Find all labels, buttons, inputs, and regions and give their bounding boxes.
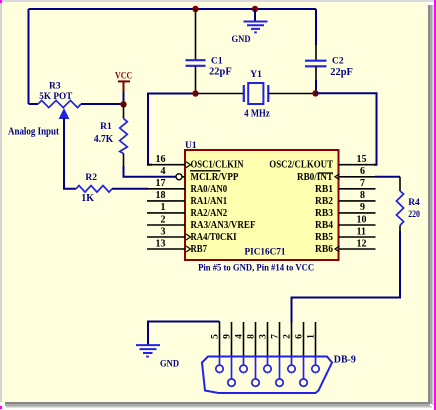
svg-text:7: 7 (271, 334, 281, 339)
left pin stub wires (pins 16,4,17,18,1,2,3,13) (147, 165, 185, 249)
svg-text:OSC1/CLKIN: OSC1/CLKIN (191, 160, 244, 171)
svg-text:10: 10 (357, 214, 367, 225)
svg-text:9: 9 (360, 202, 365, 213)
svg-text:1K: 1K (81, 193, 94, 204)
wire: OSC1 net (C1 node left, down to pin16) (148, 94, 196, 165)
svg-text:RA0/AN0: RA0/AN0 (191, 184, 228, 195)
pin direction arrows (186, 162, 340, 252)
magenta corner marks (0, 0, 2, 3)
MCLR/VPP inversion bubble (pin 4) (176, 174, 182, 180)
svg-text:4: 4 (161, 166, 166, 177)
svg-text:MCLR/VPP: MCLR/VPP (191, 172, 239, 183)
capacitor C2 (305, 9, 353, 93)
wire: crystal right lead (268, 93, 315, 95)
pin numbers right side (357, 154, 367, 249)
pin names left side (191, 160, 256, 255)
svg-text:18: 18 (156, 190, 166, 201)
svg-text:PIC16C71: PIC16C71 (245, 248, 286, 258)
node E: junction dot VCC/R3/R1 (120, 101, 126, 107)
svg-text:RA2/AN2: RA2/AN2 (191, 208, 228, 219)
svg-text:RB0/INT: RB0/INT (297, 172, 333, 183)
svg-text:VCC: VCC (115, 72, 132, 82)
wire: OSC2 net (crystal to pin15) (316, 93, 377, 164)
svg-text:R3: R3 (49, 82, 61, 92)
node A: junction dot C1/top rail (192, 6, 198, 12)
node C: junction dot C1/crystal (192, 90, 198, 96)
svg-text:15: 15 (357, 154, 367, 165)
VCC power symbol (115, 72, 132, 102)
wire: crystal left lead (196, 93, 244, 95)
right pin stub wires (pins 15,6,7,8,9,10,11,12) (339, 165, 376, 249)
svg-text:17: 17 (156, 178, 166, 189)
resistor R4 (375, 177, 420, 232)
svg-text:3: 3 (259, 334, 269, 339)
bottom drop shadow (5, 402, 428, 404)
DB-9 pin number labels (rotated) (211, 334, 317, 339)
svg-text:RB7: RB7 (191, 244, 208, 255)
svg-text:13: 13 (156, 238, 166, 249)
svg-text:4 MHz: 4 MHz (244, 108, 270, 119)
DB-9 pin circles top row (216, 365, 319, 372)
svg-text:9: 9 (223, 334, 233, 339)
svg-text:C2: C2 (332, 57, 344, 67)
svg-text:2: 2 (161, 214, 166, 225)
crystal Y1 (244, 70, 270, 119)
svg-text:GND: GND (160, 358, 179, 368)
wire: R1 to MCLR pin (124, 166, 177, 177)
svg-text:5K POT: 5K POT (39, 92, 73, 102)
svg-text:2: 2 (283, 334, 293, 339)
top edge light line (0, 0, 436, 2)
wire: R4 down to DB9 pin2 (292, 231, 401, 323)
DB-9 internal pin leads (220, 357, 316, 380)
svg-text:8: 8 (360, 190, 365, 201)
left edge light line (0, 2, 2, 402)
svg-text:22pF: 22pF (330, 67, 353, 78)
svg-text:Y1: Y1 (250, 70, 262, 80)
ground (bottom GND) (136, 322, 220, 369)
svg-text:GND: GND (232, 34, 251, 44)
svg-text:RB4: RB4 (315, 220, 334, 231)
svg-text:R1: R1 (100, 122, 112, 132)
connector DB-9 body (202, 354, 356, 393)
svg-text:6: 6 (360, 166, 365, 177)
svg-text:DB-9: DB-9 (334, 354, 356, 365)
svg-text:16: 16 (156, 154, 166, 165)
svg-text:U1: U1 (185, 141, 197, 151)
svg-text:6: 6 (295, 334, 305, 339)
svg-text:Analog Input: Analog Input (8, 126, 60, 137)
svg-text:RB6: RB6 (315, 244, 333, 255)
svg-text:5: 5 (211, 334, 221, 339)
svg-text:1: 1 (307, 334, 317, 339)
svg-text:RB5: RB5 (315, 232, 333, 243)
wire: left vertical from top rail down to R3 (28, 9, 30, 104)
svg-text:7: 7 (360, 178, 365, 189)
svg-text:OSC2/CLKOUT: OSC2/CLKOUT (269, 160, 333, 171)
svg-text:11: 11 (357, 226, 366, 237)
MCLR overline bar (190, 170, 221, 172)
svg-text:12: 12 (357, 238, 367, 249)
svg-text:R2: R2 (85, 173, 97, 183)
wires: DB-9 pin leads (pins 5,9,4,8,3,7,2,6,1) (220, 322, 316, 357)
svg-text:Pin #5 to GND, Pin #14 to VCC: Pin #5 to GND, Pin #14 to VCC (198, 264, 314, 274)
DB-9 pin circles bottom row (228, 379, 307, 386)
svg-text:RA3/AN3/VREF: RA3/AN3/VREF (191, 220, 256, 231)
resistor R1 (94, 104, 127, 167)
INT overline bar (318, 172, 334, 174)
svg-text:220: 220 (408, 210, 420, 220)
svg-text:RB2: RB2 (315, 196, 333, 207)
wire: wiper down to R2 (64, 118, 76, 189)
pin numbers left side (156, 154, 166, 249)
svg-text:RB3: RB3 (315, 208, 333, 219)
wire: top horizontal rail (29, 8, 317, 10)
pot wiper arrow (59, 108, 70, 119)
svg-text:1: 1 (161, 202, 166, 213)
node B: junction dot GND/top rail (252, 6, 258, 12)
ground (top GND) (232, 9, 268, 44)
svg-text:RA4/T0CKI: RA4/T0CKI (191, 232, 237, 243)
right drop shadow (428, 5, 430, 404)
svg-text:RB1: RB1 (315, 184, 333, 195)
svg-text:3: 3 (161, 226, 166, 237)
svg-text:C1: C1 (211, 56, 223, 66)
svg-text:R4: R4 (408, 198, 420, 208)
pin names right side (269, 160, 333, 255)
magenta right border (434, 0, 436, 410)
svg-text:8: 8 (247, 334, 257, 339)
node D: junction dot C2/crystal (312, 90, 318, 96)
svg-text:4: 4 (235, 334, 245, 339)
svg-text:4.7K: 4.7K (94, 134, 114, 145)
resistor R2 (76, 173, 148, 204)
resistor R3 (5K POT) (29, 82, 122, 108)
IC U1 PIC16C71 body (185, 141, 339, 260)
capacitor C1 (186, 9, 232, 94)
svg-text:RA1/AN1: RA1/AN1 (191, 196, 228, 207)
svg-text:22pF: 22pF (209, 67, 232, 78)
